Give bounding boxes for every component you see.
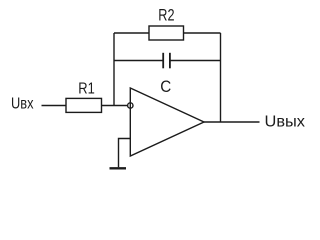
svg-text:Uвых: Uвых	[265, 114, 306, 131]
resistor R1	[66, 98, 102, 112]
resistor R2	[149, 26, 184, 40]
node A: inverting input bubble	[128, 103, 133, 108]
op-amp U1 triangle	[130, 88, 204, 156]
wire capacitor rail right	[170, 60, 220, 62]
wire output	[204, 121, 260, 123]
wire feedback right vertical to output	[220, 33, 222, 122]
wire non-inverting input to ground	[119, 139, 131, 168]
svg-text:R1: R1	[78, 81, 95, 98]
capacitor C right plate	[169, 53, 171, 69]
capacitor C left plate	[162, 53, 164, 69]
wire top rail left segment to R2	[114, 32, 149, 34]
svg-text:R2: R2	[158, 6, 174, 25]
wire feedback left vertical	[113, 33, 115, 106]
svg-text:Uвх: Uвх	[11, 95, 34, 112]
wire capacitor rail left	[114, 60, 163, 62]
wire R1 to inverting input node	[102, 105, 128, 107]
ground	[110, 167, 127, 169]
wire input from Uvx to R1	[42, 105, 67, 107]
svg-text:C: C	[160, 78, 171, 96]
wire top rail right segment from R2	[184, 32, 221, 34]
